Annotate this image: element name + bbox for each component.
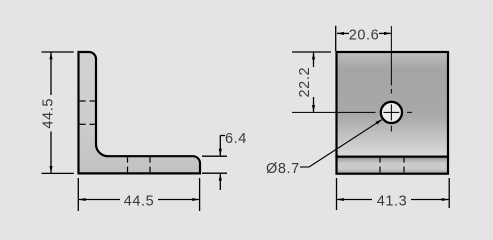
angle bracket side view (L profile) [79, 52, 201, 173]
hole diameter leader Ø8.7 [300, 120, 382, 167]
hole center cross [383, 104, 399, 120]
hole tick (front view strip, right) [403, 158, 405, 172]
dimension 6.4 (thickness) [202, 136, 227, 191]
svg-text:Ø8.7: Ø8.7 [266, 161, 300, 177]
dimension 44.5 vertical (left) [42, 52, 74, 173]
front view bottom leg strip [337, 157, 449, 174]
dimension 44.5 horizontal (bottom left) [78, 178, 199, 211]
dimension 41.3 (bottom right) [337, 178, 450, 210]
svg-text:44.5: 44.5 [41, 98, 57, 129]
hole centerlines [292, 26, 412, 132]
hole silhouette tick (side view, vertical leg, lower) [80, 123, 95, 125]
hole [381, 102, 402, 123]
svg-text:20.6: 20.6 [349, 27, 380, 43]
front view plate face [337, 52, 449, 157]
dimension 20.6 (top) [336, 26, 391, 51]
svg-text:6.4: 6.4 [225, 131, 247, 147]
svg-text:44.5: 44.5 [124, 193, 155, 209]
svg-text:41.3: 41.3 [377, 193, 408, 209]
dimension 22.2 (left of plate) [292, 52, 331, 112]
svg-text:22.2: 22.2 [297, 67, 313, 98]
hole silhouette tick (side view, vertical leg, upper) [80, 100, 95, 102]
hole tick (front view strip, left) [379, 158, 381, 172]
hole silhouette tick (side view, horizontal leg, left) [127, 157, 129, 172]
hole silhouette tick (side view, horizontal leg, right) [149, 157, 151, 172]
